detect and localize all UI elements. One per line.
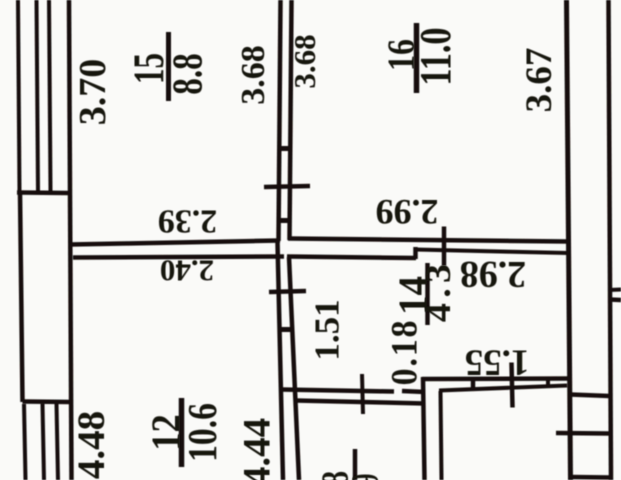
svg-text:2.40: 2.40 <box>160 254 214 289</box>
wall vertical bath left inner <box>441 391 442 480</box>
door jamb 2 <box>546 380 550 387</box>
wall rooms 15/12 bottom line <box>73 257 284 258</box>
wall 1.55 top line <box>422 376 569 381</box>
wall stub right 1 <box>609 288 621 293</box>
window W1 line3 <box>49 0 51 191</box>
corridor wall upper right line <box>290 0 292 240</box>
svg-text:2.39: 2.39 <box>158 203 218 240</box>
bath right middle wall <box>556 431 610 436</box>
svg-text:3.67: 3.67 <box>519 48 560 113</box>
room16 bottom wall jog <box>413 247 418 259</box>
window W1 line2 <box>37 0 39 191</box>
fraction bar room below (cut) <box>353 449 358 480</box>
fraction bar room 15 <box>166 32 171 101</box>
window W2 line2 <box>43 404 45 480</box>
wall pier left outer line <box>20 192 23 402</box>
hall bottom wall lower line <box>296 401 426 404</box>
window W2 line3 <box>57 404 59 480</box>
svg-text:3.68: 3.68 <box>235 45 272 105</box>
window W2 line1 (bottom-left exterior) <box>24 404 26 480</box>
fraction bar room 14 <box>425 263 430 325</box>
wall left inner line (full height) <box>69 0 72 480</box>
svg-text:4.3: 4.3 <box>419 259 459 322</box>
room16 bottom wall top line <box>288 239 568 242</box>
svg-text:8.8: 8.8 <box>165 53 212 94</box>
dimension tick hall <box>362 374 363 414</box>
svg-text:4.48: 4.48 <box>70 411 113 479</box>
wall vertical at bath left outer <box>423 377 425 480</box>
room16 bottom wall lower line left part <box>287 257 416 259</box>
svg-text:10.6: 10.6 <box>181 403 226 462</box>
window W2 sill <box>23 399 73 404</box>
corridor wall lower right line <box>289 257 299 480</box>
corridor wall lower left line <box>278 242 284 480</box>
hall bottom wall top line right of door <box>402 391 425 392</box>
svg-text:1.51: 1.51 <box>308 299 347 360</box>
svg-text:2.99: 2.99 <box>376 192 439 232</box>
room16 bottom wall lower line right part <box>415 250 568 254</box>
fraction bar room 12 <box>179 398 185 467</box>
svg-text:11.0: 11.0 <box>411 27 460 85</box>
corridor wall joint tick 1 <box>278 146 290 151</box>
dimension tick at 2.99/2.98 <box>442 227 447 266</box>
hall bottom wall top line left of door <box>281 390 394 392</box>
bath right bottom wall <box>570 475 611 480</box>
svg-text:3.70: 3.70 <box>72 59 114 126</box>
window W1 sill <box>17 190 68 195</box>
svg-text:2.98: 2.98 <box>460 253 527 295</box>
wall 1.55 bottom line <box>439 386 567 391</box>
right wall A (full height) <box>567 0 571 480</box>
bath right top wall <box>570 395 610 397</box>
wall rooms 15/12 top line <box>70 241 280 245</box>
svg-text:1.55: 1.55 <box>465 342 530 383</box>
right exterior wall B <box>609 0 612 480</box>
svg-text:9: 9 <box>344 474 386 480</box>
corridor wall cross tick lower <box>269 291 306 292</box>
svg-text:0.18: 0.18 <box>383 319 425 386</box>
dimension tick 1.55 <box>512 363 513 408</box>
svg-text:4.44: 4.44 <box>236 418 279 480</box>
corridor wall joint tick 3 <box>280 327 293 332</box>
wall stub right 2 <box>609 297 621 302</box>
window W1 line1 (top-left exterior) <box>18 0 20 192</box>
corridor wall upper left line <box>279 0 281 241</box>
corridor wall cross tick upper <box>264 186 310 187</box>
fraction bar room 16 <box>414 23 420 93</box>
corridor wall joint tick 2 <box>277 218 289 223</box>
svg-text:3.68: 3.68 <box>287 34 322 88</box>
door jamb 1 <box>471 380 476 391</box>
